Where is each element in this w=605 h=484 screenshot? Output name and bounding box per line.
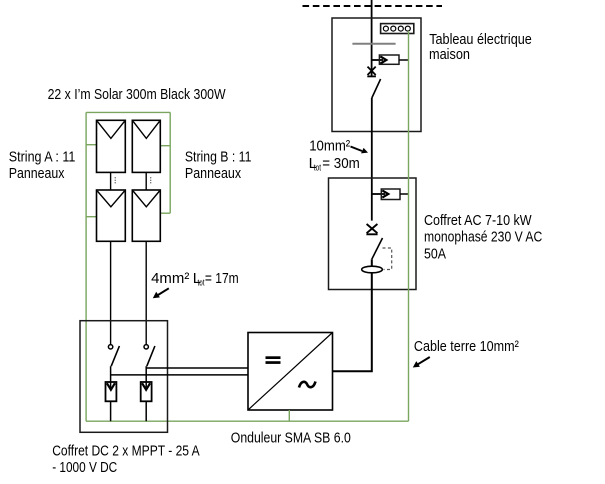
ellipsis: more panels string B (150, 177, 151, 183)
switch S2 (coffret AC) (372, 238, 383, 259)
ellipsis: more panels string A (115, 177, 116, 183)
PV panel B1 (132, 120, 160, 172)
PV panel A1 (97, 120, 126, 172)
surge arrester DC B (141, 382, 152, 401)
wire: SPD A to earth (110, 401, 112, 421)
breaker X (coffret AC) (366, 224, 377, 234)
wire: string A inter-row (110, 172, 112, 190)
label: 4mm2 Ltot=17m (151, 270, 239, 288)
label: String A : 11 Panneaux (9, 148, 76, 182)
svg-text:maison: maison (429, 46, 470, 63)
wire: SPD B to earth (145, 401, 147, 421)
wire: string B inter-row (145, 172, 147, 190)
svg-text:4mm²: 4mm² (151, 270, 189, 287)
label: 10mm2 Ltot=30m (309, 137, 360, 172)
svg-text:monophasé 230 V AC: monophasé 230 V AC (424, 229, 542, 246)
svg-text:Cable terre 10mm²: Cable terre 10mm² (414, 338, 519, 355)
wire: DC bus upper to inverter (146, 367, 248, 369)
svg-text:= 17m: = 17m (205, 270, 239, 287)
green: stub row1 right (160, 145, 170, 147)
surge arrester DC A (106, 382, 117, 401)
box: tableau electrique (332, 18, 421, 132)
wire: grid supply drop (371, 0, 373, 77)
box: coffret AC (329, 178, 417, 290)
svg-text:= 30m: = 30m (322, 155, 360, 172)
wire: tableau to coffret AC (371, 98, 373, 221)
svg-text:Coffret AC 7-10 kW: Coffret AC 7-10 kW (424, 212, 532, 229)
switch DC A (108, 345, 119, 367)
symbol: AC ~ (299, 382, 316, 388)
green: stub row1 left (86, 144, 96, 146)
wire: switch B to SPD B (145, 366, 147, 389)
wire: string B to coffret DC (145, 241, 147, 344)
wire: string A to coffret DC (110, 241, 112, 344)
box: inverter (248, 333, 333, 411)
PV panel B2 (132, 190, 160, 241)
svg-text:Panneaux: Panneaux (185, 165, 242, 182)
wire: switch A to SPD A (110, 366, 112, 389)
green: PV frame right rail (169, 112, 171, 213)
switch S1 (tableau) (372, 79, 381, 98)
green: earth bottom run (86, 420, 409, 422)
label: Coffret AC 7-10 kW monophase 230 V AC 50A (424, 212, 542, 263)
surge arrester F1 (tableau) (372, 55, 409, 64)
trip link (dashed) (383, 248, 392, 270)
green: inverter earth stub (288, 410, 290, 421)
svg-text:50A: 50A (424, 246, 446, 263)
green: PV frame left rail (85, 112, 87, 421)
label: String B : 11 Panneaux (185, 149, 252, 182)
svg-text:- 1000 V DC: - 1000 V DC (52, 459, 117, 476)
differential toroid (362, 266, 383, 273)
arrow: 4mm2 pointer (153, 288, 169, 298)
box: coffret DC (80, 321, 168, 433)
PV panel A2 (97, 190, 126, 241)
svg-text:String A : 11: String A : 11 (9, 148, 76, 165)
terminal block (meter) (381, 24, 414, 34)
wire: DC bus lower to inverter (111, 374, 248, 376)
breaker X (AGCP) (367, 67, 376, 77)
svg-text:22 x I’m Solar 300m Black 300W: 22 x I’m Solar 300m Black 300W (48, 86, 227, 103)
svg-text:Panneaux: Panneaux (9, 165, 65, 182)
svg-text:String B : 11: String B : 11 (185, 149, 252, 166)
arrow: cable terre pointer (413, 357, 430, 368)
busbar (gray) (352, 43, 395, 45)
switch DC B (144, 345, 155, 367)
dashed utility boundary line (303, 5, 443, 7)
symbol: DC = (266, 356, 281, 364)
green: PV frame top (86, 111, 170, 113)
svg-text:10mm²: 10mm² (309, 137, 350, 154)
wire: AC output to inverter (333, 259, 372, 371)
green: stub row2 right (160, 212, 170, 214)
label: Coffret DC 2 x MPPT - 25 A - 1000 V DC (52, 442, 200, 476)
label: Tableau electrique maison (429, 31, 532, 63)
svg-text:tot: tot (314, 163, 322, 173)
green: stub row2 left (86, 216, 96, 218)
arrow: 10mm2 pointer (351, 147, 369, 154)
svg-text:Onduleur SMA SB 6.0: Onduleur SMA SB 6.0 (231, 429, 351, 446)
svg-text:Coffret DC 2 x MPPT - 25 A: Coffret DC 2 x MPPT - 25 A (52, 442, 200, 459)
green: earth from meter (408, 31, 410, 421)
surge arrester F2 (coffret AC) (372, 189, 409, 200)
svg-text:tot: tot (198, 278, 205, 288)
